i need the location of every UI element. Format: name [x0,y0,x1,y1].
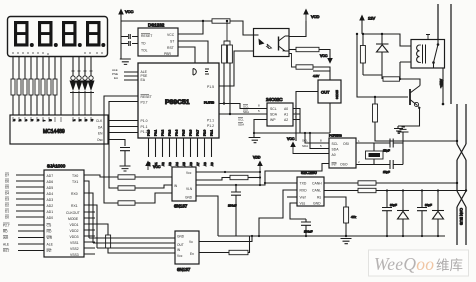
svg-text:SCL: SCL [243,105,249,109]
svg-text:VDD2: VDD2 [70,229,79,233]
svg-text:04C05: 04C05 [335,90,339,99]
svg-text:4.5V: 4.5V [313,74,319,78]
svg-text:AD2: AD2 [47,204,54,208]
svg-text:TX1: TX1 [72,180,78,184]
svg-text:SCL: SCL [302,139,308,143]
svg-text:P1.1: P1.1 [207,119,214,123]
svg-text:ALE: ALE [3,242,9,246]
svg-text:RX0: RX0 [71,192,78,196]
svg-text:SDA: SDA [243,110,249,114]
svg-text:SDA: SDA [238,123,244,127]
svg-text:12V: 12V [368,16,375,21]
svg-text:SCL: SCL [270,107,277,111]
svg-text:INT: INT [332,163,337,167]
svg-text:A3: A3 [168,162,172,166]
svg-text:SCL: SCL [332,142,339,146]
svg-text:D3: D3 [5,197,9,201]
svg-text:30pF: 30pF [425,203,432,207]
svg-text:RX1: RX1 [71,204,78,208]
svg-text:RST: RST [167,46,174,50]
svg-text:100nF: 100nF [304,230,313,234]
svg-text:6N137: 6N137 [177,267,191,272]
svg-text:15pF: 15pF [383,170,390,174]
svg-text:47k: 47k [351,215,356,219]
svg-text:D0: D0 [5,215,9,219]
svg-text:24C02C: 24C02C [266,97,283,102]
svg-text:AD3: AD3 [47,198,54,202]
svg-text:OUT: OUT [321,90,330,95]
svg-text:P0.3: P0.3 [168,129,172,136]
svg-text:A2: A2 [161,162,165,166]
svg-text:EA: EA [114,76,118,80]
svg-text:VCC: VCC [125,9,134,14]
svg-text:CANL: CANL [312,189,321,193]
svg-text:P0.5: P0.5 [182,129,186,136]
svg-text:GND: GND [177,235,185,239]
svg-text:AD6: AD6 [47,180,54,184]
svg-text:ST: ST [170,40,174,44]
svg-text:P89C51: P89C51 [165,99,190,106]
svg-text:OUT: OUT [177,243,184,247]
svg-text:VDD: VDD [253,156,261,160]
svg-text:DS1232: DS1232 [148,23,165,28]
svg-text:Vss: Vss [300,202,306,206]
svg-text:Vcc: Vcc [186,171,192,175]
svg-text:CANH: CANH [312,182,322,186]
svg-text:SDA: SDA [332,148,340,152]
svg-text:30pF: 30pF [390,203,397,207]
svg-text:RD: RD [3,229,8,233]
svg-text:A6: A6 [189,162,193,166]
svg-text:RXD: RXD [300,189,308,193]
svg-text:AD7: AD7 [47,174,54,178]
svg-text:P0.2: P0.2 [161,129,165,136]
svg-text:P0.6: P0.6 [189,129,193,136]
svg-text:6N137: 6N137 [174,204,188,209]
svg-text:维库: 维库 [436,258,463,273]
svg-text:VCC: VCC [167,33,175,37]
svg-text:AB2+-: AB2+- [439,79,443,88]
svg-text:P0.1: P0.1 [154,129,158,136]
svg-text:CAN BUS: CAN BUS [459,208,463,225]
svg-text:ALE: ALE [47,243,54,247]
svg-text:RST: RST [3,249,9,253]
svg-text:VDD3: VDD3 [70,235,79,239]
svg-text:D4: D4 [5,191,9,195]
svg-text:PBR: PBR [164,52,172,56]
svg-text:P1.0: P1.0 [141,119,148,123]
svg-text:CS: CS [47,224,52,228]
svg-text:GND: GND [185,196,193,200]
svg-text:VSS3: VSS3 [70,253,79,257]
svg-text:A7: A7 [196,162,200,166]
svg-text:P0.4: P0.4 [175,129,179,136]
svg-text:VSS1: VSS1 [70,241,79,245]
svg-text:CLK: CLK [96,119,103,123]
svg-text:Vref: Vref [300,196,306,200]
svg-text:MODE: MODE [68,217,79,221]
svg-text:TX0: TX0 [72,174,78,178]
svg-text:VCC: VCC [153,165,161,169]
svg-text:AD4: AD4 [47,192,54,196]
svg-text:D7: D7 [5,173,9,177]
svg-text:RD: RD [47,230,52,234]
svg-text:WeeQoo: WeeQoo [374,254,434,274]
svg-text:AD5: AD5 [47,186,54,190]
svg-text:VSS2: VSS2 [70,247,79,251]
svg-text:VCD: VCD [311,14,320,19]
svg-text:SJA1000: SJA1000 [47,164,66,169]
svg-text:SDA: SDA [302,144,308,148]
svg-text:TD: TD [141,42,146,46]
svg-text:RESET: RESET [141,95,152,99]
svg-text:P2.0: P2.0 [203,129,207,136]
svg-text:A9: A9 [210,162,214,166]
svg-text:WR: WR [3,236,9,240]
svg-text:A0: A0 [284,107,288,111]
svg-text:P2.1: P2.1 [210,129,214,136]
svg-text:A5: A5 [182,162,186,166]
svg-text:CLKOUT: CLKOUT [66,211,80,215]
svg-text:Osc: Osc [97,138,103,142]
svg-text:D5: D5 [5,185,9,189]
svg-text:P3.7: P3.7 [141,101,148,105]
svg-text:EN: EN [98,132,103,136]
svg-text:A4: A4 [175,162,179,166]
svg-text:OSI: OSI [343,142,349,146]
svg-text:TOL: TOL [141,49,148,53]
svg-text:15pF: 15pF [383,149,390,153]
svg-text:OSO: OSO [340,163,348,167]
svg-text:WR: WR [47,236,53,240]
svg-text:INT: INT [47,249,52,253]
svg-text:Rs: Rs [317,196,321,200]
svg-text:TXD: TXD [300,182,307,186]
svg-text:A0: A0 [332,153,336,157]
svg-text:P1.5: P1.5 [207,85,214,89]
svg-text:SDA: SDA [270,113,278,117]
svg-text:Vo: Vo [189,240,193,244]
svg-text:P0.0: P0.0 [147,129,151,136]
svg-text:RESET: RESET [141,34,152,38]
svg-text:D6: D6 [5,179,9,183]
svg-text:En: En [190,252,194,256]
svg-text:VCC: VCC [287,137,295,141]
svg-text:P2.7: P2.7 [3,223,10,227]
svg-text:D1: D1 [5,209,9,213]
svg-text:EA: EA [141,78,146,82]
svg-text:SCL: SCL [238,118,244,122]
svg-text:D2: D2 [5,203,9,207]
svg-text:AD1: AD1 [47,210,54,214]
svg-text:MC14489: MC14489 [43,129,65,135]
svg-text:P1.2: P1.2 [207,124,214,128]
svg-text:PCF8563: PCF8563 [329,134,342,138]
svg-text:Vcc: Vcc [177,254,183,258]
svg-text:VLN: VLN [186,187,193,191]
svg-text:VDD1: VDD1 [70,223,79,227]
svg-text:P1.1: P1.1 [141,125,148,129]
svg-text:A1: A1 [284,113,288,117]
svg-text:A8: A8 [203,162,207,166]
svg-text:100nF: 100nF [228,204,237,208]
svg-text:A2: A2 [284,118,288,122]
svg-text:AD0: AD0 [47,216,54,220]
svg-text:WP: WP [270,118,276,122]
svg-text:82C250: 82C250 [301,170,317,175]
svg-text:32768: 32768 [369,154,378,158]
svg-text:P1.5/TB: P1.5/TB [204,101,214,105]
svg-text:GND: GND [313,202,321,206]
svg-text:VCC: VCC [320,54,328,58]
svg-text:P0.7: P0.7 [196,129,200,136]
